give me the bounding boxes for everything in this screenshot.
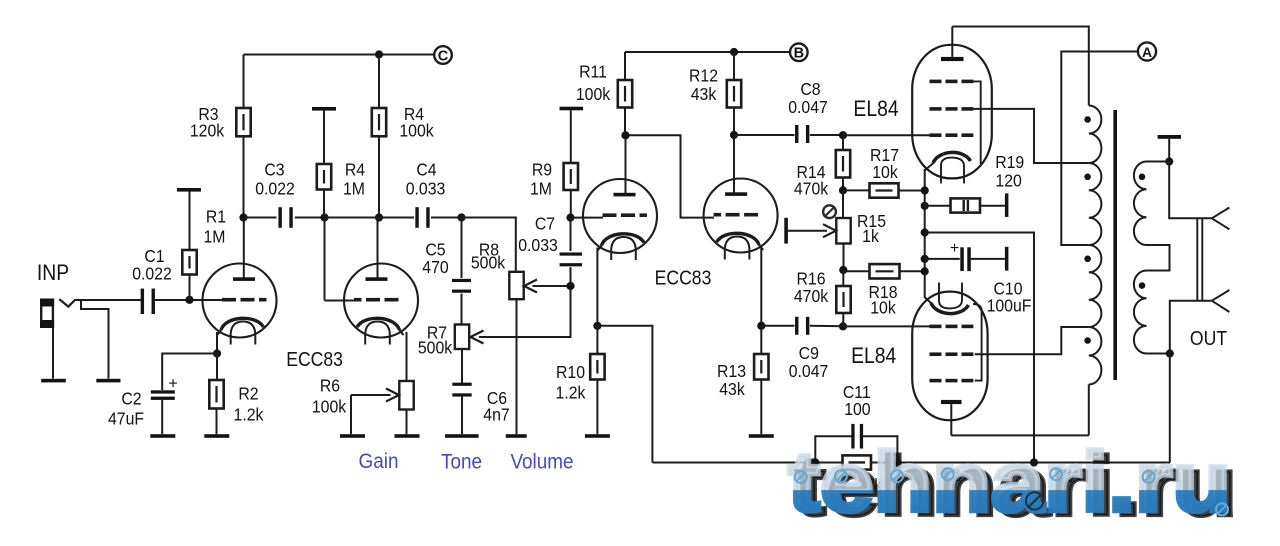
triode V2a ECC83 envelope	[583, 179, 657, 253]
wire jack vertical top	[1169, 162, 1212, 219]
svg-text:120k: 120k	[190, 121, 225, 141]
wire bottom rail left	[652, 462, 842, 464]
terminal bar C10	[1005, 247, 1009, 271]
svg-text:R11: R11	[579, 62, 607, 82]
pentode V4 grid rows	[930, 326, 974, 380]
wire C9 to node R16	[810, 325, 843, 327]
primary polarity dots	[1084, 116, 1091, 344]
triode V2b ECC83 envelope	[704, 179, 778, 253]
svg-text:1M: 1M	[204, 227, 226, 247]
wire supply rail B	[625, 51, 790, 53]
wire C8 node to R14	[842, 135, 844, 150]
wire cathode V2b	[760, 248, 762, 326]
wire grid tube V1a	[190, 299, 223, 301]
wire C2 to ground	[161, 400, 163, 434]
wire R8 wiper	[533, 285, 571, 287]
wire R16 to C9 node	[842, 313, 844, 326]
resistor R4 100k	[372, 108, 386, 136]
wire R3 to node	[243, 136, 245, 217]
svg-text:500k: 500k	[418, 338, 453, 358]
resistor R4 1M	[317, 164, 331, 190]
wire grid V2a	[571, 217, 604, 219]
svg-text:1.2k: 1.2k	[234, 405, 264, 425]
node cathode R19	[921, 202, 929, 210]
node C8/R14/g1	[839, 131, 847, 139]
triode V1a ECC83 heater	[231, 322, 256, 345]
wire cathode V1a	[216, 332, 218, 354]
wire input contact 2	[81, 301, 109, 379]
node R4/C4/plate V1b	[375, 213, 383, 221]
triode V1b ECC83 grid dashes	[385, 298, 399, 302]
wire plate V2a	[625, 135, 627, 196]
svg-text:C: C	[438, 48, 449, 64]
pentode V3 plate bar	[941, 57, 964, 61]
potentiometer R15 1k body	[836, 218, 850, 244]
triode V2a ECC83 plate bar	[614, 193, 636, 197]
svg-text:470k: 470k	[794, 178, 829, 198]
watermark circle marks	[795, 468, 1228, 515]
triode V1a ECC83 cathode	[221, 318, 264, 330]
wire R4 1M to node	[323, 190, 325, 218]
svg-text:1.2k: 1.2k	[556, 383, 586, 403]
pentode V4 heater	[939, 283, 962, 309]
svg-text:0.022: 0.022	[255, 179, 295, 199]
capacitor C10	[960, 247, 971, 271]
triode V1b ECC83 envelope	[344, 264, 418, 338]
svg-text:0.047: 0.047	[789, 361, 829, 381]
arrowhead R6 wiper	[386, 389, 399, 402]
capacitor C7	[560, 252, 582, 266]
wire R10 to ground	[596, 380, 598, 435]
wire C4 to C5 node	[431, 217, 462, 219]
terminal bar above R1	[177, 188, 201, 192]
wire R7 to C6	[461, 349, 463, 384]
node C1/R1/grid	[185, 296, 193, 304]
wire R19 to bar	[980, 205, 1005, 207]
terminal A circle	[1138, 42, 1156, 60]
svg-text:+: +	[950, 240, 959, 257]
ground jack sleeve	[41, 379, 66, 383]
svg-text:4n7: 4n7	[483, 405, 509, 425]
out jack ring chevron	[1212, 290, 1230, 312]
triode V2a ECC83 cathode	[602, 234, 645, 246]
wire R15 wiper	[788, 230, 827, 232]
pentode V3 heater	[941, 158, 964, 184]
transformer core	[1113, 110, 1117, 380]
wire input signal	[76, 299, 142, 301]
wire plate V1b	[377, 218, 379, 278]
wire node to C8	[734, 134, 795, 136]
svg-text:A: A	[1142, 44, 1152, 60]
node feedback rail	[1030, 458, 1038, 466]
wire grid V2b vertical	[626, 135, 715, 217]
wire C5 to R7	[461, 294, 463, 325]
wire C11 right	[862, 436, 897, 462]
svg-text:470k: 470k	[794, 286, 829, 306]
resistor R2 1.2k	[209, 380, 223, 409]
wire jack vertical bottom	[1170, 301, 1212, 463]
wire cathode V2a	[596, 248, 598, 326]
svg-text:C3: C3	[264, 160, 284, 180]
out jack tip chevron	[1212, 208, 1230, 230]
arrowhead R7 wiper	[471, 331, 484, 344]
node secondary top	[1165, 157, 1173, 165]
wire plate V2b	[733, 135, 735, 196]
potentiometer R8 500k body	[509, 272, 523, 299]
node cathode V2b	[757, 322, 765, 330]
terminal bar R19	[1005, 193, 1009, 217]
node R9/C7/grid V2a	[566, 214, 574, 222]
svg-text:100: 100	[844, 399, 870, 419]
node rail R4 top	[375, 50, 383, 58]
pentode V4 g3 link	[973, 304, 982, 381]
wire supply rail C	[244, 54, 435, 56]
terminal bar above R9	[560, 107, 584, 111]
svg-text:C4: C4	[416, 160, 436, 180]
node cathode V2a	[593, 322, 601, 330]
svg-text:OUT: OUT	[1190, 327, 1228, 349]
svg-text:ECC83: ECC83	[286, 348, 343, 370]
node cathode R18	[921, 267, 929, 275]
resistor R14 470k	[836, 150, 850, 178]
resistor R13 43k	[754, 354, 768, 380]
svg-text:10k: 10k	[870, 298, 896, 318]
wire plate V4	[950, 404, 952, 435]
wire node to C7	[570, 218, 572, 251]
wire node to R13	[760, 326, 762, 354]
wire g2 V4 to primary tap	[975, 327, 1089, 354]
triode V2b ECC83 cathode	[717, 233, 760, 245]
capacitor C1	[141, 289, 155, 314]
triode V2a ECC83 grid dashes	[603, 213, 617, 217]
svg-text:43k: 43k	[691, 84, 717, 104]
wire C1 to node	[154, 299, 190, 301]
wire R18 to cathode line	[900, 270, 925, 272]
wire node to C3	[244, 217, 277, 219]
node cathode R17	[921, 186, 929, 194]
wire R13 to ground	[760, 380, 762, 435]
pentode V3 cathode	[933, 152, 971, 163]
svg-text:EL84: EL84	[853, 97, 898, 121]
svg-text:Gain: Gain	[359, 450, 399, 473]
wire node to C9	[761, 325, 794, 327]
svg-text:B: B	[794, 46, 804, 62]
node cathode feedback	[921, 228, 929, 236]
svg-text:tehnari.ru: tehnari.ru	[788, 435, 1231, 529]
wire C7 to wiper node	[570, 267, 572, 286]
wire cathode V3	[925, 163, 934, 170]
node rail R12	[730, 48, 738, 56]
svg-text:EL84: EL84	[851, 344, 896, 368]
wire plate V3	[951, 27, 953, 57]
ground	[395, 434, 420, 438]
capacitor C2	[151, 390, 175, 400]
svg-text:100k: 100k	[312, 397, 347, 417]
node plate V2b / R12 / C8	[730, 131, 738, 139]
svg-text:120: 120	[995, 170, 1021, 190]
wire R8 to ground	[516, 299, 518, 434]
node C3/R4 1M/grid V1b	[320, 213, 328, 221]
svg-text:C7: C7	[535, 214, 555, 234]
node R15/R16/R18	[839, 266, 847, 274]
wire rail to R4 100k	[378, 55, 380, 109]
svg-text:0.022: 0.022	[132, 264, 172, 284]
wire R12 to node	[733, 108, 735, 136]
wire node to R18	[843, 270, 869, 272]
input jack plug	[40, 299, 54, 329]
svg-text:R12: R12	[689, 66, 718, 86]
wire rail to R12	[733, 52, 735, 80]
wire primary bottom to plate V4	[951, 434, 1089, 436]
wire cathode V1b	[406, 332, 408, 381]
svg-text:R6: R6	[320, 376, 340, 396]
wire C5 top	[461, 218, 463, 279]
wire C10 to bar	[971, 258, 1005, 260]
wire to winding top	[1147, 161, 1170, 163]
svg-text:0.033: 0.033	[406, 179, 446, 199]
wire R2 to ground	[216, 409, 218, 435]
resistor R17 10k	[870, 183, 899, 197]
node C11 right	[893, 458, 901, 466]
wire cathode to R19	[925, 205, 951, 207]
capacitor C11	[851, 424, 863, 449]
wire to R8 corner	[462, 218, 516, 272]
pentode V3 g3 link	[973, 81, 980, 164]
terminal C circle	[434, 46, 452, 64]
wire R6 to ground	[406, 410, 408, 435]
triode V1b ECC83 plate bar	[366, 277, 388, 281]
capacitor C3	[278, 207, 292, 228]
terminal bar secondary top	[1158, 135, 1181, 139]
wire g2 V3 to primary tap	[973, 109, 1088, 163]
wire R6 wiper	[351, 394, 391, 396]
wire g1 top EL84	[843, 134, 930, 136]
triode V1a ECC83 envelope	[203, 264, 277, 338]
svg-text:1M: 1M	[343, 179, 365, 199]
triode V2a ECC83 heater	[611, 237, 636, 260]
wire R1 to node	[189, 275, 191, 301]
wire bar to secondary	[1168, 139, 1170, 162]
ground	[150, 434, 175, 438]
pentode V4 EL84 envelope	[912, 292, 987, 421]
wire g1 bottom EL84	[843, 325, 930, 327]
transformer secondary winding	[1134, 162, 1147, 354]
wire R15 to node	[843, 244, 845, 270]
capacitor C8	[795, 125, 809, 143]
pentode V3 EL84 envelope	[912, 45, 992, 179]
wire C6 to ground	[461, 395, 463, 434]
wire rail to R3	[243, 55, 245, 109]
wire plate V1a	[243, 218, 245, 278]
resistor R1 1M	[182, 250, 196, 275]
wire bar to R9	[570, 110, 572, 163]
wire feedback to bottom rail	[925, 233, 1034, 463]
node cathode C10	[921, 255, 929, 263]
watermark dark circle mark	[1026, 492, 1043, 509]
pentode V3 grid rows	[930, 81, 974, 135]
potentiometer R6 100k body	[399, 381, 413, 410]
svg-text:100k: 100k	[399, 121, 434, 141]
capacitor C6	[452, 383, 471, 397]
wire cathode line EL84s	[924, 169, 926, 298]
wire jack sleeve	[52, 328, 54, 379]
wire bottom rail right	[871, 462, 1170, 464]
resistor R19 120	[951, 198, 981, 212]
resistor R20	[843, 455, 872, 469]
wire R17 to cathode line	[899, 190, 925, 192]
pentode V4 plate bar	[941, 400, 962, 404]
node secondary bottom	[1166, 349, 1174, 357]
pentode V4 cathode	[931, 303, 969, 314]
triode V2b ECC83 plate bar	[725, 192, 747, 196]
svg-text:1k: 1k	[862, 226, 879, 246]
wire secondary series link	[1147, 245, 1170, 271]
wire node to R15	[842, 190, 844, 218]
svg-text:ECC83: ECC83	[655, 266, 712, 288]
ground	[340, 434, 365, 438]
resistor R18 10k	[870, 264, 900, 278]
svg-text:+: +	[168, 376, 177, 393]
node R3/C3/plate	[239, 213, 247, 221]
svg-text:R2: R2	[238, 384, 258, 404]
triode V1a ECC83 grid dashes	[222, 298, 236, 302]
ground input contact	[96, 379, 120, 383]
wire bar to R1	[189, 192, 191, 251]
svg-text:R9: R9	[532, 160, 552, 180]
node wipers C7	[566, 282, 574, 290]
wire plate V3 to primary top	[952, 27, 1089, 106]
wire cathode V4	[925, 297, 932, 304]
resistor R16 470k	[836, 286, 850, 313]
svg-text:100k: 100k	[576, 84, 611, 104]
terminal bar R15 wiper	[784, 218, 788, 244]
ground	[585, 434, 610, 438]
resistor R9 1M	[564, 163, 578, 190]
wire R7 wiper	[479, 286, 571, 337]
svg-text:R10: R10	[556, 362, 585, 382]
svg-text:0.047: 0.047	[788, 97, 828, 117]
wire R14 to node	[842, 178, 844, 191]
wire C3 to node R4 1M	[295, 217, 325, 219]
arrowhead R8 wiper	[524, 280, 537, 293]
wire cathode V2a to corner	[597, 326, 652, 463]
svg-text:470: 470	[422, 257, 448, 277]
node C11 left	[811, 458, 819, 466]
transformer primary winding	[1089, 106, 1102, 385]
svg-text:0.033: 0.033	[518, 235, 558, 255]
wire A to primary center tap	[1061, 52, 1138, 246]
wire wiper to ground	[350, 395, 352, 434]
terminal bar above R4 1M	[312, 107, 336, 111]
terminal B circle	[790, 44, 808, 62]
wire node to R16	[842, 270, 844, 286]
wire secondary bottom	[1147, 353, 1170, 355]
wire rail to R11	[624, 52, 626, 80]
resistor R3 120k	[236, 108, 250, 136]
svg-text:100uF: 100uF	[987, 295, 1032, 315]
wire grid V1b	[325, 300, 357, 302]
triode V2b ECC83 heater	[725, 237, 750, 260]
resistor R11 100k	[618, 80, 632, 108]
secondary polarity dots	[1139, 174, 1146, 289]
wire R9 to node	[570, 190, 572, 218]
capacitor C4	[415, 207, 429, 228]
node R14/R15/R17	[839, 186, 847, 194]
wire C11 left	[815, 436, 852, 462]
potentiometer R7 500k body	[455, 325, 469, 350]
node C9/R16/g1 bottom	[839, 322, 847, 330]
triode V1b ECC83 cathode	[357, 318, 400, 330]
triode V2b ECC83 grid dashes	[744, 213, 758, 217]
node C5 top	[457, 213, 465, 221]
svg-text:Volume: Volume	[510, 450, 573, 473]
ground	[749, 434, 774, 438]
triode V1b ECC83 heater	[365, 322, 390, 345]
out jack body lines	[1196, 218, 1198, 300]
node plate V2a / R11	[621, 131, 629, 139]
wire grid drop V1b	[324, 218, 326, 301]
wire cathode to C10	[925, 258, 960, 260]
svg-text:INP: INP	[37, 261, 69, 285]
ground	[445, 434, 479, 438]
wire bar to R4 1M	[323, 111, 325, 164]
wire C8 to node R14	[810, 134, 843, 136]
svg-text:Tone: Tone	[441, 450, 482, 473]
resistor R10 1.2k	[590, 354, 604, 380]
wire cathode to C2	[162, 354, 217, 391]
ground	[204, 434, 229, 438]
wire R11 to node	[624, 108, 626, 136]
svg-text:500k: 500k	[471, 253, 506, 273]
resistor R12 43k	[727, 80, 741, 108]
svg-text:1M: 1M	[530, 179, 552, 199]
triode V1a ECC83 plate bar	[233, 277, 255, 281]
wire node to R10	[596, 326, 598, 354]
wire node to R2	[216, 354, 218, 381]
svg-text:C2: C2	[121, 389, 141, 409]
input jack tip contact	[59, 299, 75, 306]
capacitor C9	[795, 317, 809, 335]
ground	[506, 434, 527, 438]
svg-text:47uF: 47uF	[108, 409, 144, 429]
watermark mark near R15	[823, 205, 836, 218]
capacitor C5	[452, 279, 471, 293]
svg-text:10k: 10k	[872, 162, 898, 182]
svg-text:43k: 43k	[719, 379, 745, 399]
node cathode V1a	[213, 349, 221, 357]
arrowhead R15 wiper	[823, 224, 836, 237]
wire node to R17	[843, 189, 870, 191]
wire R4 to node	[378, 136, 380, 217]
svg-text:R4: R4	[345, 160, 365, 180]
svg-text:R1: R1	[206, 207, 226, 227]
svg-text:R19: R19	[995, 152, 1024, 172]
